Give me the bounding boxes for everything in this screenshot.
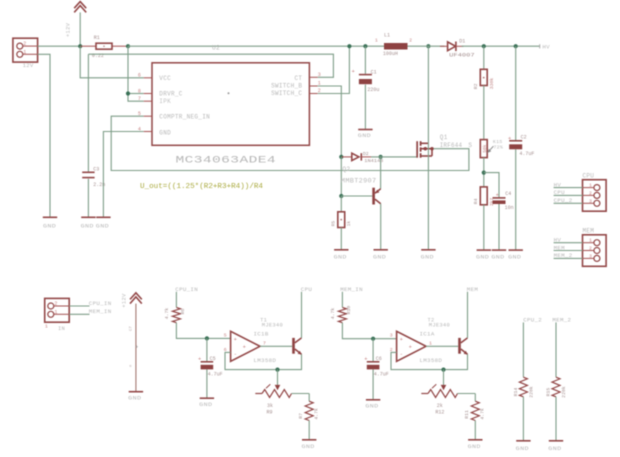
svg-text:R4: R4 xyxy=(473,198,479,204)
svg-text:2: 2 xyxy=(589,190,592,196)
wire D2 cathode to Q1 gate xyxy=(371,156,417,158)
svg-text:GND: GND xyxy=(468,444,481,450)
capacitor C1 220u xyxy=(352,46,380,129)
node junction at 12V rail xyxy=(78,44,82,48)
svg-text:+12V: +12V xyxy=(122,293,128,308)
svg-text:MEM_2: MEM_2 xyxy=(554,252,573,259)
svg-text:C7: C7 xyxy=(130,326,134,331)
svg-text:+: + xyxy=(364,356,367,362)
wire connector pin1 to GND xyxy=(38,54,50,217)
svg-text:4.7uF: 4.7uF xyxy=(374,371,389,377)
wire HV node down to R2 xyxy=(483,46,485,69)
capacitor C6 4.7uF xyxy=(364,339,389,400)
svg-text:HV: HV xyxy=(554,237,562,244)
svg-text:3: 3 xyxy=(589,198,592,204)
wire SWITCH_B pin1 down to D2 anode xyxy=(318,86,342,157)
svg-text:1: 1 xyxy=(54,309,57,315)
svg-text:1: 1 xyxy=(589,183,592,189)
transistor Q1 IRF644 mosfet xyxy=(416,134,472,158)
svg-text:220u: 220u xyxy=(367,87,379,93)
svg-text:C2: C2 xyxy=(521,134,527,140)
wire IN pin2 to CPU_IN label xyxy=(69,305,89,307)
wire T1 emitter to feedback and trimmer xyxy=(225,352,302,369)
svg-text:GND: GND xyxy=(159,129,171,136)
svg-text:220k: 220k xyxy=(561,386,567,398)
svg-text:VCC: VCC xyxy=(159,75,171,82)
wire D2 cathode down to Q2 emitter xyxy=(380,157,382,189)
svg-text:GND: GND xyxy=(302,444,315,450)
svg-text:MEM: MEM xyxy=(467,286,479,293)
supply +12V symbol lower xyxy=(122,293,142,308)
trimmer R3 xyxy=(480,139,503,158)
svg-text:MC34063ADE4: MC34063ADE4 xyxy=(176,155,277,167)
svg-text:4.7uF: 4.7uF xyxy=(208,371,223,377)
wire rail R1 to L1 xyxy=(128,45,384,47)
svg-text:GND: GND xyxy=(358,133,371,139)
ground under R5 xyxy=(334,250,349,261)
wire D2 anode down to Q2 base node xyxy=(340,157,342,196)
resistor R6 4.7k xyxy=(164,307,186,322)
wire R14 to ground xyxy=(522,397,524,441)
svg-text:HV: HV xyxy=(542,43,550,50)
svg-text:GND: GND xyxy=(334,254,347,260)
resistor R2 330k xyxy=(473,69,495,89)
svg-text:R7: R7 xyxy=(298,413,304,419)
ground under C4 xyxy=(491,250,506,260)
resistor R7 4.7k xyxy=(298,401,320,420)
resistor R5 xyxy=(331,212,352,228)
connector X2 IN xyxy=(45,298,69,332)
op-amp IC1B LM358D xyxy=(224,331,277,364)
ground under U2 pin4 xyxy=(96,217,111,229)
svg-text:4: 4 xyxy=(138,126,141,132)
svg-text:4.7k: 4.7k xyxy=(480,408,486,420)
svg-text:S: S xyxy=(468,142,472,149)
node junction above C5 xyxy=(205,336,209,340)
svg-text:GND: GND xyxy=(96,224,109,230)
svg-text:2k: 2k xyxy=(437,403,443,409)
wire HV to MEM pin1 xyxy=(554,242,583,244)
svg-text:CPU_IN: CPU_IN xyxy=(175,286,198,293)
svg-text:R2: R2 xyxy=(473,83,479,89)
wire switch node down to Q1 drain xyxy=(427,46,429,143)
node junction rail boost switch node xyxy=(426,44,430,48)
connector SV1 CPU xyxy=(583,172,607,211)
node junction feedback divider xyxy=(482,171,486,175)
node junction rail above C1 xyxy=(363,44,367,48)
svg-text:+: + xyxy=(135,345,138,351)
wire R11 to ground xyxy=(474,421,476,440)
svg-text:U_out=((1.25*(R2+R3+R4))/R4: U_out=((1.25*(R2+R3+R4))/R4 xyxy=(140,183,263,191)
svg-text:GND: GND xyxy=(548,446,561,452)
svg-text:1k: 1k xyxy=(346,221,352,227)
svg-text:MMBT2907: MMBT2907 xyxy=(341,177,377,184)
op-amp IC1A LM358D xyxy=(390,331,443,364)
resistor R14 220k xyxy=(513,377,535,398)
svg-text:1: 1 xyxy=(429,341,432,347)
wire Q1 source to ground xyxy=(427,156,429,250)
wire T1 collector up to CPU label xyxy=(301,292,303,338)
capacitor C3 2.2n xyxy=(82,54,105,217)
inductor L1 100uH xyxy=(375,33,412,57)
ground under C6 xyxy=(365,400,380,410)
svg-text:4.7uF: 4.7uF xyxy=(519,151,534,157)
capacitor C7 on supply rail xyxy=(130,304,139,392)
svg-text:GND: GND xyxy=(128,396,141,402)
wire MEM_2 net to MEM pin3 xyxy=(554,257,583,259)
wire +12V node down to VCC pin6 xyxy=(80,46,144,78)
node junction trimmer wiper net xyxy=(275,368,279,372)
svg-text:+: + xyxy=(508,136,511,142)
node junction above R2 xyxy=(482,44,486,48)
resistor R10 4.7k xyxy=(330,306,352,323)
IC U2 MC34063ADE4 xyxy=(138,44,321,166)
svg-text:R12: R12 xyxy=(435,409,444,415)
svg-text:DRVR_C: DRVR_C xyxy=(159,91,183,98)
node junction above C6 xyxy=(371,337,375,341)
svg-text:MJE340: MJE340 xyxy=(429,323,450,329)
wire R10 to op-amp2 +input xyxy=(342,323,396,339)
svg-text:1: 1 xyxy=(45,324,48,330)
svg-text:R1: R1 xyxy=(94,35,100,41)
net label HV xyxy=(539,44,541,48)
wire feedback node to C4 xyxy=(484,173,499,198)
svg-text:8: 8 xyxy=(138,88,141,94)
connector SV2 MEM xyxy=(583,228,607,267)
wire HV to CPU pin1 xyxy=(554,187,583,189)
svg-text:C5: C5 xyxy=(210,356,216,362)
wire R6 to op-amp +input xyxy=(176,323,230,339)
svg-text:GND: GND xyxy=(421,254,434,260)
svg-text:MEM: MEM xyxy=(583,228,595,235)
svg-text:1: 1 xyxy=(375,37,378,43)
wire base node to Q2 base xyxy=(341,195,372,197)
svg-text:MEM_IN: MEM_IN xyxy=(340,286,363,293)
wire MEM net to MEM pin2 xyxy=(554,250,583,252)
svg-text:2: 2 xyxy=(54,301,57,307)
svg-text:MEM_2: MEM_2 xyxy=(552,317,571,324)
wire CPU net to CPU pin2 xyxy=(554,194,583,196)
node junction DRVR_C xyxy=(126,91,130,95)
svg-text:1: 1 xyxy=(589,238,592,244)
ground under R14 xyxy=(516,441,531,452)
svg-text:C6: C6 xyxy=(376,356,382,362)
svg-text:IC1A: IC1A xyxy=(420,331,435,338)
ground under R11 xyxy=(468,440,483,450)
supply +12V symbol top xyxy=(66,2,87,37)
svg-text:MEM_IN: MEM_IN xyxy=(89,308,112,315)
svg-text:GND: GND xyxy=(516,446,529,452)
wire R15 to ground xyxy=(555,397,557,441)
ground under Q2 xyxy=(373,250,388,261)
svg-text:SWITCH_B: SWITCH_B xyxy=(271,83,302,90)
wire R1 node down to DRVR_C pin8 and IPK pin7 xyxy=(128,46,144,101)
svg-text:7: 7 xyxy=(138,96,141,102)
svg-text:L1: L1 xyxy=(384,33,390,39)
svg-text:C1: C1 xyxy=(371,70,377,76)
wire T2 collector up to MEM label xyxy=(467,292,469,338)
ground under C5 xyxy=(199,398,214,408)
capacitor C5 4.7uF xyxy=(198,338,223,398)
wire wiper2 drop xyxy=(443,370,445,385)
svg-text:2: 2 xyxy=(589,246,592,252)
node junction trimmer2 wiper net xyxy=(441,368,445,372)
svg-text:+: + xyxy=(496,192,499,198)
node junction right of R1 xyxy=(126,44,130,48)
svg-text:GND: GND xyxy=(476,254,489,260)
svg-text:CT: CT xyxy=(294,75,302,82)
svg-text:72%: 72% xyxy=(494,145,504,151)
wire R3 to feedback node xyxy=(483,158,485,187)
resistor R1 0.22 xyxy=(80,35,128,59)
wire R4 to ground xyxy=(483,205,485,250)
svg-text:C4: C4 xyxy=(505,191,511,197)
svg-text:GND: GND xyxy=(43,224,56,230)
svg-text:+12V: +12V xyxy=(66,22,72,37)
svg-text:3: 3 xyxy=(390,333,393,339)
svg-text:R6: R6 xyxy=(180,309,186,315)
wire +12V drop to rail xyxy=(79,12,81,46)
svg-text:IPK: IPK xyxy=(159,98,171,105)
svg-text:R15: R15 xyxy=(546,388,552,397)
svg-text:D2: D2 xyxy=(363,151,369,157)
ground under R4 xyxy=(476,250,491,260)
wire 12V to +12V node xyxy=(38,45,81,47)
svg-text:LM358D: LM358D xyxy=(420,357,443,364)
wire trimmer2 right to R11 xyxy=(474,394,476,402)
ground under R15 xyxy=(548,441,563,452)
svg-text:4.7k: 4.7k xyxy=(164,308,170,320)
svg-text:CPU: CPU xyxy=(583,172,595,179)
svg-text:Q2: Q2 xyxy=(342,166,350,173)
diode D2 1N4148 xyxy=(341,151,383,164)
ground under C3 xyxy=(81,217,96,229)
svg-text:C3: C3 xyxy=(93,167,99,173)
svg-text:3: 3 xyxy=(589,253,592,259)
svg-text:CPU: CPU xyxy=(301,286,313,293)
svg-text:5: 5 xyxy=(224,333,227,339)
svg-text:10n: 10n xyxy=(505,205,514,211)
svg-text:IN: IN xyxy=(58,326,65,332)
svg-text:-: - xyxy=(234,350,237,357)
transistor T2 MJE340 xyxy=(428,317,468,354)
node junction above C2 xyxy=(514,44,518,48)
resistor R4 xyxy=(473,187,495,206)
svg-text:GND: GND xyxy=(373,254,386,260)
svg-text:GND: GND xyxy=(199,402,212,408)
wire T2 emitter to feedback and trimmer xyxy=(391,352,468,369)
node junction D2 cathode xyxy=(379,155,383,159)
svg-text:+: + xyxy=(198,356,201,362)
node junction Q2 base xyxy=(339,194,343,198)
svg-text:1: 1 xyxy=(23,49,26,55)
diode D1 UF4007 xyxy=(440,39,475,59)
svg-text:GND: GND xyxy=(365,404,378,410)
transistor T1 MJE340 xyxy=(260,317,302,354)
svg-text:IC1B: IC1B xyxy=(254,331,269,338)
svg-text:GND: GND xyxy=(81,224,94,230)
svg-text:MEM: MEM xyxy=(554,244,566,251)
wire MEM_2 down to R15 xyxy=(555,322,557,377)
resistor R15 220k xyxy=(546,377,568,398)
connector X1 12V input xyxy=(13,38,38,69)
svg-text:R5: R5 xyxy=(331,221,337,227)
wire R5 to ground xyxy=(340,228,342,250)
svg-text:6: 6 xyxy=(138,73,141,79)
ground under +12V rail xyxy=(128,392,143,402)
svg-text:Q1: Q1 xyxy=(440,134,448,141)
wire IN pin1 to MEM_IN label xyxy=(69,313,89,315)
svg-text:R14: R14 xyxy=(513,388,519,397)
svg-text:12V: 12V xyxy=(23,62,34,69)
svg-text:D1: D1 xyxy=(459,39,465,45)
svg-text:CPU_2: CPU_2 xyxy=(523,317,542,324)
ground under R7 xyxy=(302,440,317,450)
wire trimmer right to R7 xyxy=(308,394,310,402)
wire CT timing net (C3 top to CT pin3) xyxy=(88,54,333,77)
wire op-amp2 output to T2 base xyxy=(426,345,458,347)
wire comparator sense net from pin5 to Q1 source xyxy=(111,116,469,170)
svg-text:COMPTR_NEG_IN: COMPTR_NEG_IN xyxy=(159,113,210,120)
svg-text:3k: 3k xyxy=(267,403,273,409)
resistor R11 4.7k xyxy=(464,401,486,420)
wire CPU_IN down to R6 xyxy=(175,292,177,308)
ground under Q1 xyxy=(421,250,436,261)
wire R7 to ground xyxy=(308,421,310,440)
svg-text:U2: U2 xyxy=(212,44,220,51)
svg-text:4.7k: 4.7k xyxy=(314,408,320,420)
svg-text:R10: R10 xyxy=(346,306,352,315)
trimmer R9 3k xyxy=(255,384,309,415)
wire Q2 collector to ground xyxy=(380,204,382,250)
svg-text:2: 2 xyxy=(409,37,412,43)
wire wiper drop xyxy=(277,370,279,385)
svg-text:R11: R11 xyxy=(464,410,470,419)
svg-text:7: 7 xyxy=(263,341,266,347)
svg-text:K1S: K1S xyxy=(493,139,503,145)
wire MEM_IN down to R10 xyxy=(341,292,343,308)
wire op-amp1 output to T1 base xyxy=(260,345,292,347)
svg-text:100uH: 100uH xyxy=(383,51,398,57)
transistor Q2 MMBT2907 xyxy=(341,166,381,205)
ground under C1 xyxy=(358,130,373,140)
wire SWITCH_C pin2 up to rail xyxy=(318,46,350,93)
svg-text:MJE340: MJE340 xyxy=(262,323,283,329)
svg-text:220k: 220k xyxy=(529,386,535,398)
svg-text:LM358D: LM358D xyxy=(254,357,277,364)
ground under connector xyxy=(43,217,57,229)
svg-text:330k: 330k xyxy=(489,78,495,90)
node junction D2 anode xyxy=(339,155,343,159)
svg-text:3: 3 xyxy=(318,72,321,78)
svg-text:R9: R9 xyxy=(267,409,273,415)
svg-text:SWITCH_C: SWITCH_C xyxy=(271,90,302,97)
svg-text:-: - xyxy=(400,350,403,357)
node junction rail above SWITCH_C xyxy=(347,44,351,48)
wire base node down to R5 xyxy=(340,196,342,212)
svg-text:GND: GND xyxy=(491,254,504,260)
svg-text:GND: GND xyxy=(508,254,521,260)
svg-text:50k: 50k xyxy=(482,144,488,153)
svg-text:CPU: CPU xyxy=(554,189,566,196)
svg-text:HV: HV xyxy=(554,181,562,188)
svg-text:IRF644: IRF644 xyxy=(440,142,463,149)
capacitor C4 10n xyxy=(493,191,514,250)
trimmer R12 2k xyxy=(421,384,475,415)
wire rail L1 to D1 xyxy=(408,45,445,47)
wire D1 cathode to HV xyxy=(462,45,540,47)
svg-text:UF4007: UF4007 xyxy=(449,52,475,58)
wire R2 to R3 xyxy=(483,86,485,140)
wire CPU_2 down to R14 xyxy=(522,322,524,377)
svg-text:2: 2 xyxy=(23,41,26,47)
svg-text:CPU_IN: CPU_IN xyxy=(89,300,112,307)
svg-text:CPU_2: CPU_2 xyxy=(554,197,573,204)
svg-text:5: 5 xyxy=(138,111,141,117)
svg-text:4.7k: 4.7k xyxy=(330,308,336,320)
wire CPU_2 net to CPU pin3 xyxy=(554,202,583,204)
wire U2 GND pin4 to ground xyxy=(103,132,143,218)
ground under C2 xyxy=(508,250,523,260)
capacitor C2 4.7uF xyxy=(508,46,534,250)
